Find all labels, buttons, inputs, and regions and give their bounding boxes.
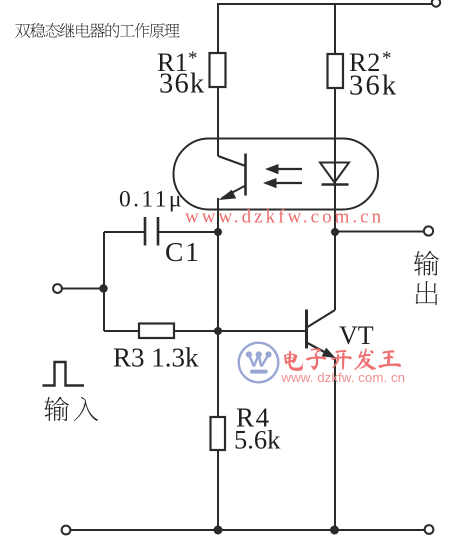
optocoupler U1 oval xyxy=(174,139,379,210)
label output 输出 xyxy=(414,251,439,306)
wire left loop vertical xyxy=(103,232,105,331)
wire left branch vertical xyxy=(217,3,219,530)
svg-text:0.11μ: 0.11μ xyxy=(119,187,184,213)
phototransistor base bar xyxy=(244,154,247,196)
capacitor C1 plates xyxy=(144,217,147,246)
wire cap right to node xyxy=(158,231,218,233)
LED cathode bar xyxy=(322,183,349,186)
node dot bottom left xyxy=(214,526,223,535)
phototransistor collector diagonal xyxy=(218,156,246,166)
svg-text:36k: 36k xyxy=(349,71,398,102)
label input 输入 xyxy=(44,397,98,421)
watermark logo circle W xyxy=(239,343,279,383)
wire R3 row left xyxy=(104,330,139,332)
resistor R1 xyxy=(210,53,226,87)
terminal bottom right xyxy=(425,525,434,534)
terminal bottom left xyxy=(62,526,71,535)
input terminal xyxy=(53,284,62,293)
svg-text:VT: VT xyxy=(339,321,374,350)
svg-text:36k: 36k xyxy=(159,69,205,100)
svg-text:R3 1.3k: R3 1.3k xyxy=(113,343,199,373)
svg-text:www.dzkfw.com.cn: www.dzkfw.com.cn xyxy=(185,207,384,228)
resistor R3 xyxy=(139,324,174,339)
output terminal xyxy=(424,226,433,235)
title text xyxy=(15,23,179,38)
phototransistor emitter with arrow xyxy=(222,186,246,199)
watermark brand text xyxy=(284,348,401,371)
node dot input junction xyxy=(99,284,107,292)
svg-text:C1: C1 xyxy=(165,236,201,267)
LED D1 triangle xyxy=(320,163,349,183)
wire top rail xyxy=(217,3,432,5)
LED light arrow 1 xyxy=(272,168,302,170)
node dot left (cap junction) xyxy=(214,228,222,236)
node dot R3 junction xyxy=(214,327,222,335)
transistor VT collector diagonal xyxy=(308,310,336,327)
wire bottom rail xyxy=(71,529,425,531)
input pulse symbol xyxy=(43,362,85,386)
resistor R4 xyxy=(211,417,226,450)
LED light arrow 2 xyxy=(270,182,302,184)
wire right branch vertical xyxy=(334,3,336,530)
transistor VT base bar xyxy=(305,310,308,349)
svg-text:www. dzkfw. com. cn: www. dzkfw. com. cn xyxy=(281,370,406,385)
node dot bottom right xyxy=(330,526,339,535)
transistor VT emitter with arrow xyxy=(308,343,331,355)
node dot right xyxy=(331,228,339,236)
wire R3 to VT base xyxy=(174,330,307,332)
wire to output terminal xyxy=(335,231,424,233)
wire cap left xyxy=(104,231,145,233)
terminal top right xyxy=(432,0,440,7)
resistor R2 xyxy=(328,54,344,88)
svg-text:5.6k: 5.6k xyxy=(234,425,281,455)
wire input to left rail xyxy=(62,288,104,290)
